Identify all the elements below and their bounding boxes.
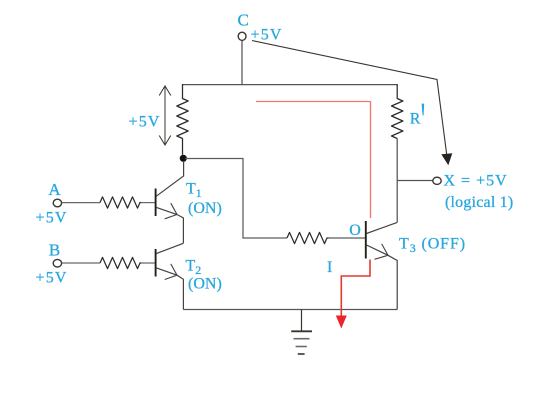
svg-text:(logical 1): (logical 1) [445, 194, 513, 211]
wire R3 to T3 base [329, 237, 366, 239]
node junction dot [180, 155, 187, 162]
svg-text:R: R [410, 111, 421, 128]
terminal C [238, 32, 246, 40]
svg-text:I: I [327, 259, 332, 276]
svg-text:T3 (OFF): T3 (OFF) [399, 235, 466, 255]
terminal A [53, 199, 61, 207]
red current path lower with arrow [336, 260, 370, 329]
resistor RB [100, 257, 141, 268]
wire top supply bus [183, 84, 398, 86]
collector slant [367, 222, 398, 233]
resistor R' [392, 84, 403, 139]
wire bottom ground bus [183, 309, 397, 311]
ground [291, 310, 312, 355]
wire R' to X and down to T3 collector [396, 139, 398, 223]
svg-text:(ON): (ON) [188, 276, 222, 293]
svg-text:+5V: +5V [36, 209, 68, 226]
resistor R3 (T3 base) [287, 232, 329, 243]
base bar [365, 221, 367, 259]
wire RA to T1 base [141, 202, 155, 204]
collector wire from node [156, 161, 183, 196]
annotation arrow to X [252, 41, 452, 166]
wire A to resistor [62, 202, 100, 204]
svg-text:B: B [49, 241, 60, 260]
transistor T3 [366, 221, 397, 310]
emitter with arrow [367, 245, 398, 310]
emitter with arrow [156, 207, 183, 243]
red current path upper [256, 102, 371, 219]
svg-text:(ON): (ON) [188, 200, 222, 217]
wire C stem [241, 41, 243, 85]
svg-text:O: O [349, 222, 361, 239]
terminal B [53, 259, 61, 267]
resistor R1 (left pull-up) [177, 84, 188, 155]
svg-text:A: A [48, 180, 61, 199]
transistor T1 [156, 161, 184, 243]
wire RB to T2 base [141, 262, 155, 264]
wire B to resistor [62, 262, 100, 264]
svg-text:C: C [238, 11, 249, 30]
wire node to T3 base resistor [185, 159, 287, 239]
voltage indicator double arrow [159, 86, 171, 145]
base bar [155, 249, 157, 277]
collector wire from T1 emitter [156, 243, 183, 253]
wire X output [397, 180, 432, 182]
terminal X [433, 177, 441, 184]
svg-text:X = +5V: X = +5V [444, 173, 508, 190]
svg-text:+5V: +5V [36, 269, 68, 286]
resistor RA [100, 197, 141, 208]
svg-text:+5V: +5V [129, 114, 161, 131]
transistor T2 [156, 243, 184, 309]
emitter with arrow [156, 268, 183, 310]
base bar [155, 189, 157, 217]
